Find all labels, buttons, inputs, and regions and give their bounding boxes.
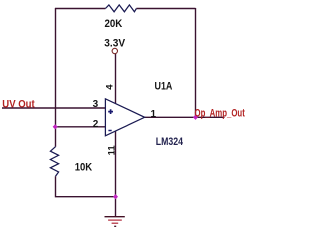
op-amp U1A triangle bbox=[105, 99, 144, 136]
wire feedback right vertical bbox=[195, 8, 197, 117]
svg-text:1: 1 bbox=[151, 109, 157, 120]
wire op-amp output bbox=[145, 116, 225, 118]
resistor R2 10K body bbox=[50, 147, 58, 177]
wire ground stem bbox=[115, 197, 117, 217]
svg-text:10K: 10K bbox=[75, 162, 93, 174]
wire UV Out to pin 3 bbox=[2, 107, 105, 109]
svg-text:3.3V: 3.3V bbox=[104, 38, 125, 50]
svg-text:4: 4 bbox=[105, 84, 116, 90]
svg-text:20K: 20K bbox=[105, 18, 123, 30]
wire node A to pin 2 bbox=[56, 126, 106, 128]
junction at pin 2 node bbox=[53, 124, 58, 129]
ground symbol bbox=[105, 217, 125, 227]
svg-text:3: 3 bbox=[93, 99, 99, 110]
power symbol 3.3V circle bbox=[112, 48, 117, 53]
op-amp minus input marker bbox=[108, 130, 111, 132]
wire R2 bottom to ground junction bbox=[56, 176, 116, 196]
svg-text:U1A: U1A bbox=[155, 81, 173, 93]
wire pin 11 to ground net bbox=[115, 131, 117, 197]
svg-text:UV Out: UV Out bbox=[2, 99, 35, 111]
wire 3.3V to pin 4 bbox=[115, 54, 117, 104]
svg-text:2: 2 bbox=[93, 119, 99, 130]
resistor R1 20K body bbox=[105, 5, 136, 12]
svg-text:LM324: LM324 bbox=[156, 136, 184, 148]
wire top feedback right segment bbox=[136, 8, 195, 10]
wire feedback left vertical bbox=[55, 8, 57, 147]
svg-text:Op_Amp_Out: Op_Amp_Out bbox=[195, 107, 246, 119]
wire top feedback left segment bbox=[55, 8, 105, 10]
op-amp plus input marker bbox=[108, 109, 113, 114]
junction at ground node bbox=[113, 194, 118, 199]
svg-text:11: 11 bbox=[106, 145, 117, 156]
junction at output node bbox=[193, 115, 198, 120]
